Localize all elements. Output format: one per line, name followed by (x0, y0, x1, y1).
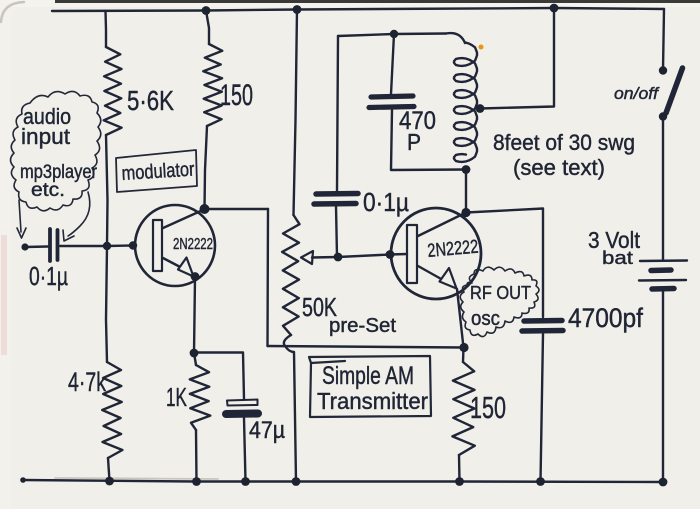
wire: C5 to ground rail (541, 334, 544, 482)
wire: feedback vertical drop (266, 209, 269, 346)
transistor Q1 emitter lead (163, 258, 184, 269)
wire: top rail to R1 (104, 11, 107, 47)
wire: top rail to pot 50K (294, 10, 298, 216)
capacitor C2 47u top plate (227, 400, 258, 406)
capacitor C5 4700pf plates (522, 321, 563, 332)
node: top rail / antenna riser (550, 4, 559, 13)
wire: coil tap to antenna riser (480, 8, 554, 109)
wire: input terminal to C1 (25, 245, 48, 248)
node: coil tap (476, 104, 485, 113)
node: base divider junction (103, 242, 111, 250)
svg-text:RF OUT: RF OUT (470, 283, 531, 303)
wire: tank top into coil (446, 33, 465, 43)
svg-text:0·1µ: 0·1µ (363, 187, 409, 217)
capacitor C4 470P plates (369, 96, 414, 108)
faint pencil streak above ground rail (55, 478, 218, 479)
resistor R3 4.7K (102, 362, 122, 458)
node: input terminal (21, 243, 28, 250)
wire: emitter node to C2 (194, 353, 244, 400)
node: Q2 emitter / R5 / feedback (459, 343, 468, 352)
node: switch top (659, 66, 667, 74)
switch SW1 blade (666, 68, 683, 113)
stray orange ink dot (479, 45, 484, 50)
inductor L1 coil (454, 43, 477, 162)
resistor R2 150 (203, 44, 222, 126)
modulator box (116, 150, 197, 192)
node: ground / C2 (241, 477, 250, 486)
node: emitter/R4/C2 junction (190, 349, 199, 358)
wire: feedback to Q2 emitter node (268, 346, 465, 348)
node: tank top / 470P (390, 30, 398, 38)
svg-text:P: P (407, 129, 421, 155)
capacitor C2 47u bottom plate (226, 410, 258, 419)
resistor R1 5.6K (104, 47, 122, 135)
wire: Q2 collector to C5 (466, 209, 543, 318)
arrow: cloud to input left (19, 200, 21, 232)
transistor Q2 collector lead (418, 213, 466, 237)
node: ground / pot (292, 477, 301, 486)
wire: R1 to base node (106, 135, 108, 246)
scan edge artifact strip (55, 0, 700, 3)
paper corner shadow (1, 2, 24, 22)
wire: 470P bottom to tank bottom (391, 110, 466, 170)
svg-text:etc.: etc. (31, 180, 65, 201)
wire: right rail battery to ground rail (662, 291, 664, 482)
svg-text:bat: bat (602, 248, 633, 268)
wire: pot bottom curl to ground rail (284, 335, 296, 482)
node: Q1 emitter (191, 272, 200, 281)
svg-text:modulator: modulator (121, 159, 195, 185)
wire: emitter node to R5 (462, 348, 465, 363)
wire: R5 to ground rail (458, 455, 461, 482)
wire: right rail switch to battery (662, 117, 664, 260)
transistor Q2 emitter lead (418, 266, 443, 280)
node: Q2 base (386, 250, 395, 259)
transistor Q1 collector lead (163, 210, 204, 229)
node: top rail / R2 (202, 6, 211, 15)
wire: R3 to ground rail (108, 458, 110, 481)
svg-text:pre-Set: pre-Set (329, 315, 396, 337)
wire: coil bottom to Q2 collector (465, 170, 467, 212)
wire: tank circuit top (338, 34, 446, 37)
node: ground / R3 (105, 477, 114, 486)
wire: right rail top to switch (663, 9, 664, 70)
arrow: cloud to input curved (68, 192, 90, 236)
svg-text:5·6K: 5·6K (127, 85, 174, 116)
node: Q1 base (129, 241, 137, 249)
transistor Q1 circle (135, 205, 215, 286)
node: Q1 collector (200, 204, 210, 214)
svg-text:(see text): (see text) (513, 155, 605, 180)
resistor R5 150 (452, 362, 474, 455)
wire: Q2 emitter to node (457, 289, 464, 348)
svg-text:2N2222: 2N2222 (427, 237, 480, 262)
svg-text:Transmitter: Transmitter (317, 388, 428, 414)
node: coil bottom (462, 165, 471, 174)
node: ground / C5 (536, 477, 545, 486)
svg-text:4·7k: 4·7k (68, 367, 106, 397)
node: wiper / C3 (334, 253, 343, 262)
node: Q2 collector (461, 208, 470, 217)
transistor Q2 base lead (390, 253, 407, 256)
svg-text:osc: osc (471, 308, 500, 330)
cloud: RF OUT osc bubble (460, 267, 539, 336)
svg-text:0·1µ: 0·1µ (29, 261, 68, 291)
wire: C1 to Q1 base node (60, 244, 133, 247)
wire: top +V rail (52, 8, 664, 11)
wire: Q1 collector to feedback drop (205, 208, 269, 210)
svg-text:150: 150 (470, 390, 506, 425)
transistor Q2 base bar (407, 225, 417, 283)
wire: bottom ground rail (23, 480, 663, 482)
wire: base node to R3 (106, 246, 107, 362)
transistor Q2 emitter arrowhead (440, 268, 457, 289)
wire: emitter node to R4 (194, 353, 196, 365)
svg-text:Simple AM: Simple AM (322, 362, 414, 390)
wire: R2 to Q1 collector node (205, 126, 208, 209)
capacitor C1 0.1u plates (50, 229, 58, 261)
wire: C2 to ground rail (244, 418, 246, 482)
svg-text:47µ: 47µ (249, 417, 285, 444)
svg-text:4700pf: 4700pf (568, 303, 643, 333)
svg-text:1K: 1K (166, 382, 187, 412)
cloud: audio input bubble (11, 91, 101, 241)
node: ground / R4 (192, 477, 201, 486)
wire: Q1 emitter down to node (194, 278, 195, 353)
svg-text:2N2222: 2N2222 (173, 236, 213, 253)
potentiometer VR1 wiper arrowhead (301, 251, 313, 264)
potentiometer VR1 50K element (282, 215, 299, 335)
node: ground / right rail (659, 478, 668, 487)
wire: top rail to R2 (206, 11, 209, 45)
resistor R4 1K (190, 365, 211, 430)
transistor Q1 emitter arrowhead (178, 258, 194, 277)
transistor Q2 circle (391, 208, 481, 299)
wire: C3 to wiper line (336, 206, 337, 257)
wire: wiper to Q2 base (312, 255, 390, 258)
capacitor C3 0.1u plates (314, 194, 358, 205)
svg-text:on/off: on/off (614, 84, 660, 103)
transistor Q1 base bar (153, 220, 162, 271)
node: ground rail left end (20, 477, 26, 483)
node: switch bottom (659, 112, 667, 120)
node: top rail / pot (293, 5, 302, 14)
node: ground / R5 (455, 477, 464, 486)
wire: R4 to ground rail (195, 430, 198, 482)
wire: 470P top lead (391, 34, 394, 94)
svg-text:input: input (21, 124, 70, 149)
svg-text:8feet of 30 swg: 8feet of 30 swg (493, 130, 635, 155)
Simple AM Transmitter box (309, 356, 431, 417)
svg-text:150: 150 (220, 79, 253, 112)
battery BT1 3V plates (639, 261, 687, 290)
wire: tank top left drop to C3 (337, 36, 338, 191)
